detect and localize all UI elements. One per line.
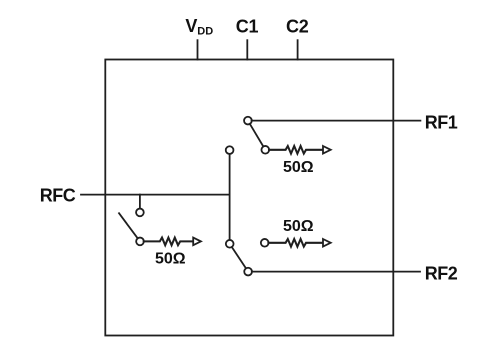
resistor R1 50 ohm shunt: [144, 238, 194, 246]
switch SW1 arm (open): [119, 213, 138, 238]
wire RFC input: [81, 194, 230, 196]
switch SW1 pivot node: [136, 238, 144, 246]
wire shunt stub: [139, 195, 141, 209]
node S1 termination contact: [261, 146, 269, 154]
wire RF1 output: [252, 120, 421, 122]
switch SW2 arm (closed to termination): [250, 124, 264, 147]
svg-text:50Ω: 50Ω: [283, 159, 314, 176]
node T1 throw contact RF1: [226, 146, 234, 154]
svg-text:C1: C1: [236, 17, 259, 37]
svg-text:RFC: RFC: [40, 186, 76, 206]
node T2 throw contact RF2: [226, 240, 234, 248]
svg-text:50Ω: 50Ω: [283, 218, 314, 235]
node shunt contact: [136, 209, 144, 217]
svg-text:RF1: RF1: [425, 113, 458, 133]
switch SW3 arm (closed RFC to RF2): [232, 247, 246, 268]
resistor R3 termination arrow: [323, 239, 331, 247]
resistor R3 50 ohm termination: [268, 239, 323, 247]
svg-text:50Ω: 50Ω: [155, 251, 186, 268]
resistor R1 termination arrow: [193, 238, 201, 246]
resistor R2 50 ohm termination: [269, 146, 323, 154]
svg-text:RF2: RF2: [425, 263, 458, 283]
node S2 termination contact: [261, 239, 269, 247]
pin C1 wire: [246, 40, 248, 59]
resistor R2 termination arrow: [323, 146, 331, 154]
svg-text:V: V: [185, 16, 197, 36]
svg-text:DD: DD: [197, 25, 213, 37]
IC body outline: [105, 60, 393, 336]
svg-text:C2: C2: [286, 17, 309, 37]
node P2 RF2 pole: [244, 268, 252, 276]
node P1 RF1 pole: [244, 117, 252, 125]
wire RF2 output: [252, 271, 420, 273]
wire RFC vertical bus: [229, 154, 231, 240]
pin C2 wire: [297, 40, 299, 59]
pin VDD wire: [197, 40, 199, 59]
